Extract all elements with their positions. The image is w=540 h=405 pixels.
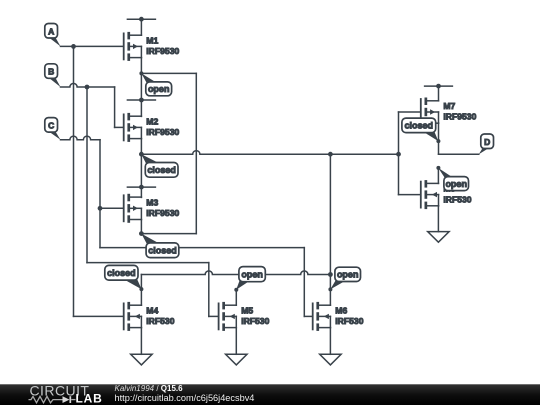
svg-text:IRF530: IRF530	[146, 316, 174, 326]
svg-text:M7: M7	[443, 101, 455, 111]
svg-text:closed: closed	[405, 121, 434, 131]
svg-text:M3: M3	[146, 197, 158, 207]
svg-text:C: C	[48, 121, 54, 131]
svg-text:D: D	[484, 137, 490, 147]
svg-text:open: open	[445, 179, 467, 189]
svg-text:M2: M2	[146, 117, 158, 127]
svg-text:closed: closed	[148, 246, 177, 256]
svg-text:IRF9530: IRF9530	[443, 112, 476, 122]
svg-text:open: open	[148, 84, 170, 94]
svg-text:A: A	[48, 26, 54, 36]
svg-text:IRF9530: IRF9530	[146, 127, 179, 137]
svg-text:closed: closed	[147, 165, 176, 175]
svg-text:IRF530: IRF530	[335, 316, 363, 326]
svg-text:LAB: LAB	[76, 391, 103, 405]
svg-text:B: B	[48, 67, 54, 77]
svg-text:open: open	[241, 269, 263, 279]
svg-text:Kalvin1994 / Q15.6: Kalvin1994 / Q15.6	[115, 384, 184, 393]
svg-text:closed: closed	[107, 268, 136, 278]
svg-text:M6: M6	[335, 306, 347, 316]
svg-text:M5: M5	[241, 306, 253, 316]
svg-text:IRF530: IRF530	[443, 194, 471, 204]
svg-text:M1: M1	[146, 36, 158, 46]
svg-text:http://circuitlab.com/c6j56j4e: http://circuitlab.com/c6j56j4ecsbv4	[115, 393, 255, 403]
svg-text:M4: M4	[146, 306, 158, 316]
svg-text:IRF9530: IRF9530	[146, 208, 179, 218]
svg-text:open: open	[337, 270, 359, 280]
svg-text:IRF530: IRF530	[241, 316, 269, 326]
svg-text:IRF9530: IRF9530	[146, 46, 179, 56]
